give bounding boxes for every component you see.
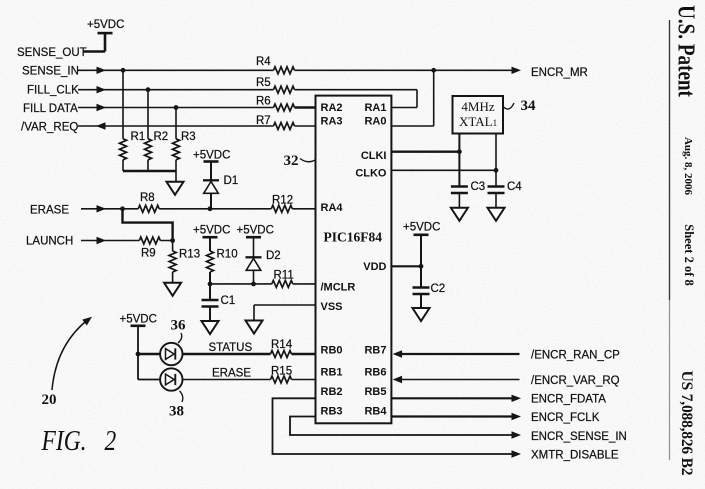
svg-text:RA2: RA2 xyxy=(321,102,343,114)
svg-text:20: 20 xyxy=(42,392,57,408)
svg-text:ENCR_SENSE_IN: ENCR_SENSE_IN xyxy=(531,431,627,443)
svg-text:R12: R12 xyxy=(272,195,293,207)
svg-text:+5VDC: +5VDC xyxy=(403,222,440,234)
svg-text:CLKO: CLKO xyxy=(355,168,387,180)
svg-text:+5VDC: +5VDC xyxy=(87,19,124,31)
svg-text:Sheet 2 of 8: Sheet 2 of 8 xyxy=(682,224,696,285)
svg-text:XTAL1: XTAL1 xyxy=(459,114,497,129)
svg-text:RB5: RB5 xyxy=(364,386,386,398)
svg-text:/MCLR: /MCLR xyxy=(321,282,356,294)
svg-text:R5: R5 xyxy=(256,77,271,89)
svg-text:RB2: RB2 xyxy=(321,386,343,398)
svg-text:FIG.: FIG. xyxy=(41,425,87,456)
svg-text:R11: R11 xyxy=(274,270,294,282)
svg-text:R9: R9 xyxy=(141,248,156,260)
svg-text:2: 2 xyxy=(105,425,117,456)
svg-text:+5VDC: +5VDC xyxy=(193,225,230,237)
svg-text:/ENCR_VAR_RQ: /ENCR_VAR_RQ xyxy=(531,375,620,387)
svg-text:STATUS: STATUS xyxy=(209,342,253,354)
svg-text:36: 36 xyxy=(171,318,187,334)
svg-text:RB4: RB4 xyxy=(364,406,387,418)
svg-text:4MHz: 4MHz xyxy=(461,99,494,114)
svg-text:R6: R6 xyxy=(256,96,271,108)
svg-text:32: 32 xyxy=(284,153,299,169)
svg-text:VSS: VSS xyxy=(321,301,343,313)
svg-text:C2: C2 xyxy=(431,283,446,295)
svg-text:R4: R4 xyxy=(256,56,271,68)
svg-text:/VAR_REQ: /VAR_REQ xyxy=(21,122,78,134)
svg-text:LAUNCH: LAUNCH xyxy=(26,236,73,248)
svg-text:C3: C3 xyxy=(471,181,486,193)
svg-text:C1: C1 xyxy=(221,295,236,307)
svg-text:ENCR_MR: ENCR_MR xyxy=(531,67,588,79)
svg-text:+5VDC: +5VDC xyxy=(120,314,157,326)
svg-text:D2: D2 xyxy=(266,250,281,262)
svg-text:R8: R8 xyxy=(140,192,155,204)
svg-text:XMTR_DISABLE: XMTR_DISABLE xyxy=(531,450,619,462)
svg-text:RA1: RA1 xyxy=(364,102,386,114)
svg-text:R14: R14 xyxy=(271,339,293,351)
svg-text:R15: R15 xyxy=(271,366,292,378)
svg-text:ERASE: ERASE xyxy=(30,205,69,217)
svg-text:VDD: VDD xyxy=(363,261,386,273)
svg-text:+5VDC: +5VDC xyxy=(193,150,230,162)
svg-text:RB0: RB0 xyxy=(321,345,343,357)
svg-text:RA4: RA4 xyxy=(321,202,344,214)
svg-text:RA0: RA0 xyxy=(364,116,386,128)
svg-text:US 7,088,826 B2: US 7,088,826 B2 xyxy=(678,371,695,476)
svg-text:U.S. Patent: U.S. Patent xyxy=(673,5,701,97)
svg-text:ERASE: ERASE xyxy=(212,368,251,380)
svg-text:R1: R1 xyxy=(131,131,146,143)
svg-text:R3: R3 xyxy=(181,131,196,143)
svg-text:SENSE_OUT: SENSE_OUT xyxy=(17,47,87,59)
svg-text:FILL_CLK: FILL_CLK xyxy=(27,85,79,97)
svg-text:RB6: RB6 xyxy=(364,367,386,379)
svg-text:ENCR_FCLK: ENCR_FCLK xyxy=(531,412,600,424)
svg-text:R7: R7 xyxy=(256,115,271,127)
svg-text:/ENCR_RAN_CP: /ENCR_RAN_CP xyxy=(531,350,620,362)
svg-text:38: 38 xyxy=(169,404,184,420)
svg-text:+5VDC: +5VDC xyxy=(237,225,274,237)
svg-text:R10: R10 xyxy=(217,249,238,261)
svg-text:D1: D1 xyxy=(224,175,239,187)
svg-text:R13: R13 xyxy=(179,249,200,261)
svg-text:R2: R2 xyxy=(154,131,169,143)
svg-text:CLKI: CLKI xyxy=(361,150,387,162)
svg-text:RB3: RB3 xyxy=(321,406,343,418)
svg-text:RB7: RB7 xyxy=(364,345,386,357)
svg-text:FILL DATA: FILL DATA xyxy=(23,103,78,115)
svg-text:34: 34 xyxy=(521,98,537,114)
svg-text:RA3: RA3 xyxy=(321,116,343,128)
svg-text:SENSE_IN: SENSE_IN xyxy=(22,66,79,78)
svg-text:C4: C4 xyxy=(507,181,522,193)
svg-text:RB1: RB1 xyxy=(321,367,343,379)
svg-text:Aug. 8, 2006: Aug. 8, 2006 xyxy=(682,137,694,196)
svg-text:PIC16F84: PIC16F84 xyxy=(324,230,383,245)
svg-text:ENCR_FDATA: ENCR_FDATA xyxy=(531,394,606,406)
